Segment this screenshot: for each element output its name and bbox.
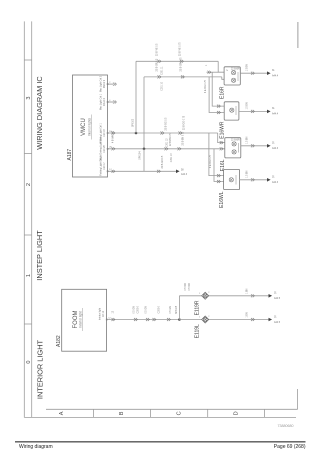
svg-text:A44.3: A44.3 [272,181,279,184]
E16R bulb 1 [232,71,236,75]
connector on pin3 wire [112,132,115,135]
svg-text:0.5 OR: 0.5 OR [185,283,187,291]
VMCU pin2 stub [108,101,114,103]
wire vertical V3 down to arrow [143,149,145,172]
connector pair wire1 b [180,60,183,63]
VMCU pin1 stub [108,83,114,85]
svg-text:WIRING DIAGRAM IC: WIRING DIAGRAM IC [35,76,44,150]
svg-text:SP6104: SP6104 [140,151,142,160]
connector pair on wire4 mid2 [178,147,181,150]
ground arrow E16WR [267,110,271,114]
wire pin3 horizontal [108,132,218,134]
svg-text:31: 31 [272,143,275,145]
svg-text:58: 58 [181,170,184,172]
svg-text:31: 31 [274,316,277,318]
E16WL bulb [229,178,233,182]
wire off-page top right [297,22,299,48]
E16R bulb 2 [232,78,236,82]
E16WR bulb [230,108,234,112]
svg-text:22 B-BN 0.5: 22 B-BN 0.5 [170,133,172,146]
svg-text:DW12 2: DW12 2 [104,79,106,88]
svg-text:1 BN: 1 BN [247,288,249,293]
left ruler tick 2 [24,153,31,155]
svg-text:VMCU: VMCU [81,118,87,136]
wire pin4 horizontal [108,148,225,150]
svg-text:E16WR: E16WR [220,121,226,139]
ground arrow E16WL [267,178,271,182]
wire2 bend to E16R pin2 [222,77,224,79]
left ruler tick 4 [24,323,31,325]
svg-text:1.5 BN: 1.5 BN [247,136,249,143]
left ruler tick 1 [24,59,31,61]
top branch wire [179,295,268,297]
svg-text:Max Light Ctrl 1: Max Light Ctrl 1 [100,93,103,110]
left ruler line inner [31,21,33,417]
E16WR output wire [239,110,267,112]
lamp E16L box [225,138,241,158]
svg-text:22 B-OG 0.75: 22 B-OG 0.75 [184,115,186,130]
svg-text:C6 12: C6 12 [103,310,105,317]
svg-text:22 B-GN 0.5: 22 B-GN 0.5 [162,155,164,168]
svg-text:C301 12: C301 12 [167,138,169,147]
svg-text:2: 2 [208,292,210,294]
lamp E119L [202,316,209,323]
bottom ruler line bottom [24,416,296,418]
svg-text:31: 31 [274,293,277,295]
E16WR pin1 feed vertical [212,72,224,106]
svg-text:A44.5: A44.5 [274,321,281,324]
svg-text:C90 28: C90 28 [104,145,106,153]
svg-text:31: 31 [272,177,275,179]
connector pair wire2 a [158,75,161,78]
svg-text:1.5 BN: 1.5 BN [247,64,249,71]
svg-text:C: C [176,411,182,415]
svg-text:A44.3: A44.3 [272,147,279,150]
wire1 horizontal [136,60,218,62]
svg-text:E119R: E119R [195,300,201,315]
svg-text:INTERIOR LIGHT: INTERIOR LIGHT [36,339,45,399]
bottom ruler tick A/B [92,409,94,417]
svg-text:C305 6: C305 6 [138,305,140,313]
connector pair on wire3 mid2 [179,132,182,135]
junction dot FOOM wire [178,318,181,321]
svg-text:1: 1 [199,293,201,295]
svg-text:A44.3: A44.3 [181,173,188,176]
svg-text:31: 31 [272,70,275,72]
lamp E16R box [224,67,240,85]
connector pair wire2 b [181,75,184,78]
svg-text:A44.5: A44.5 [274,297,281,300]
pin1 feed horizontal with connector [207,71,219,73]
svg-text:4 E-OG 0.75: 4 E-OG 0.75 [210,154,212,168]
svg-text:73880680: 73880680 [278,424,294,428]
svg-text:A: A [59,411,65,415]
svg-text:Interior light: Interior light [79,311,83,328]
wire3 bend to E16L pin1 [218,133,225,143]
connector on E16WR pin2 feed [217,111,220,114]
lamp E16WR box [224,102,239,120]
svg-text:Interior light: Interior light [99,308,102,320]
svg-text:2: 2 [208,316,210,318]
svg-text:22 B-BR: 22 B-BR [231,140,240,142]
E16WL pin1 feed vertical [209,133,224,176]
svg-text:0.5 GN: 0.5 GN [134,306,136,314]
svg-text:SP6105: SP6105 [176,305,178,314]
svg-text:E16R: E16R [220,86,226,99]
svg-text:A44.4: A44.4 [272,113,279,116]
ground arrow bottom branch [269,318,273,322]
E16R output wire [240,72,267,74]
VMCU pin numbers [109,82,112,171]
E16L output wire [241,145,267,147]
svg-text:Page 69 (268): Page 69 (268) [274,444,306,450]
svg-text:E16WL: E16WL [219,191,225,208]
svg-text:4 B-WH 0.5: 4 B-WH 0.5 [113,130,115,143]
connector pair FOOM wire mid2 [146,318,149,321]
bottom ruler tick D end [264,409,266,417]
svg-text:0.5 GN: 0.5 GN [146,306,148,314]
E16L bulb 1 [232,142,236,146]
svg-text:22 B-YE 0.5: 22 B-YE 0.5 [157,43,159,56]
svg-text:22 B-GR 0.5: 22 B-GR 0.5 [157,58,159,71]
wire vertical V2 [143,77,145,149]
bottom ruler tick B/C [150,409,152,417]
svg-text:C301 10: C301 10 [162,81,164,90]
connector pair FOOM wire mid3 [167,318,170,321]
svg-text:12: 12 [113,310,115,313]
left ruler tick 3 [24,234,31,236]
connector pair on wire4 mid1 [165,147,168,150]
pin5 stub wire [108,170,145,172]
svg-text:INSTEP LIGHT: INSTEP LIGHT [35,230,44,281]
svg-text:1: 1 [206,64,208,66]
svg-text:C90 18: C90 18 [104,129,106,137]
VMCU pin ticks [107,83,109,172]
svg-text:0: 0 [26,360,32,363]
bottom ruler line top [46,408,298,410]
off page arrow [176,170,180,174]
connector on pin4 wire [112,147,115,150]
lamp E16WL box [224,169,240,189]
svg-text:22 B-BR: 22 B-BR [231,69,240,71]
ground arrow top branch [269,294,273,298]
svg-text:C90 17: C90 17 [104,162,106,170]
svg-text:A44.4: A44.4 [272,75,279,78]
svg-text:C305 6: C305 6 [159,305,161,313]
FOOM output wire [107,319,180,321]
svg-text:A182: A182 [56,335,62,347]
lamp E119R [202,292,209,299]
connector on bottom branch [251,318,254,321]
svg-text:0.5 GN: 0.5 GN [170,306,172,314]
connector pair FOOM wire mid2b [153,318,156,321]
junction SP dot wire3 [135,132,138,135]
svg-text:E119L: E119L [195,324,201,338]
connector pair FOOM wire mid1 [134,318,137,321]
wire2 horizontal [144,76,222,78]
bottom ruler tick C/D [207,409,209,417]
svg-text:22 B-YE 0.75: 22 B-YE 0.75 [180,42,182,56]
svg-text:1: 1 [199,317,201,319]
footer rule [15,441,306,443]
E16WL output wire [240,179,267,181]
svg-text:0.5 OR: 0.5 OR [189,283,191,291]
svg-text:1.5 BN: 1.5 BN [247,170,249,177]
left ruler line outer [23,21,25,417]
connector on E16WR pin1 feed [217,105,220,108]
ground arrow E16L [267,144,271,148]
svg-text:1 BN: 1 BN [247,312,249,317]
junction SP dot wire4 [143,148,146,151]
svg-text:Max Light Ctrl 2: Max Light Ctrl 2 [100,75,103,92]
wire vertical V1 [135,61,137,133]
svg-text:Interior lights: Interior lights [87,117,91,136]
svg-text:B: B [119,411,125,415]
control unit A187 VMCU box [73,75,108,177]
connector pair on wire3 mid1 [161,132,164,135]
connector on top branch [251,294,254,297]
svg-text:22 B-GR 0.75: 22 B-GR 0.75 [181,57,183,72]
svg-text:1.5 BN: 1.5 BN [247,102,249,109]
control unit A182 FOOM box [62,289,107,351]
svg-text:C301 13: C301 13 [171,153,173,162]
svg-text:D: D [233,411,239,415]
branch vertical up [178,296,180,320]
svg-text:22 B-OG 0.5: 22 B-OG 0.5 [166,117,168,131]
svg-text:A187: A187 [67,149,73,161]
FOOM pin tick [106,319,108,321]
arrow wire [144,170,176,172]
svg-text:Parking Light Ctrl 1: Parking Light Ctrl 1 [100,156,103,176]
svg-text:DA12 4: DA12 4 [103,97,106,105]
wire1 bend down to E16R pin1 [218,61,224,72]
svg-text:22 B-BN 0.75: 22 B-BN 0.75 [183,131,185,146]
E16WR pin2 feed vertical [209,77,224,113]
svg-text:4 E-OG 0.75: 4 E-OG 0.75 [205,79,207,93]
E16WL pin2 feed vertical [214,149,224,182]
svg-text:31: 31 [272,108,275,110]
frame corner stub right [297,389,299,409]
svg-text:C301 11: C301 11 [162,66,164,75]
bottom branch wire continues [179,319,268,321]
svg-text:Wiring diagram: Wiring diagram [19,444,53,450]
connector at FOOM pin [112,318,115,321]
connector pair wire1 a [158,60,161,63]
ground arrow E16R [267,71,271,75]
svg-text:3: 3 [26,96,32,99]
svg-text:2: 2 [26,183,32,186]
svg-text:1: 1 [26,274,32,277]
svg-text:SP6103: SP6103 [133,118,135,127]
E16L bulb 2 [232,150,236,154]
